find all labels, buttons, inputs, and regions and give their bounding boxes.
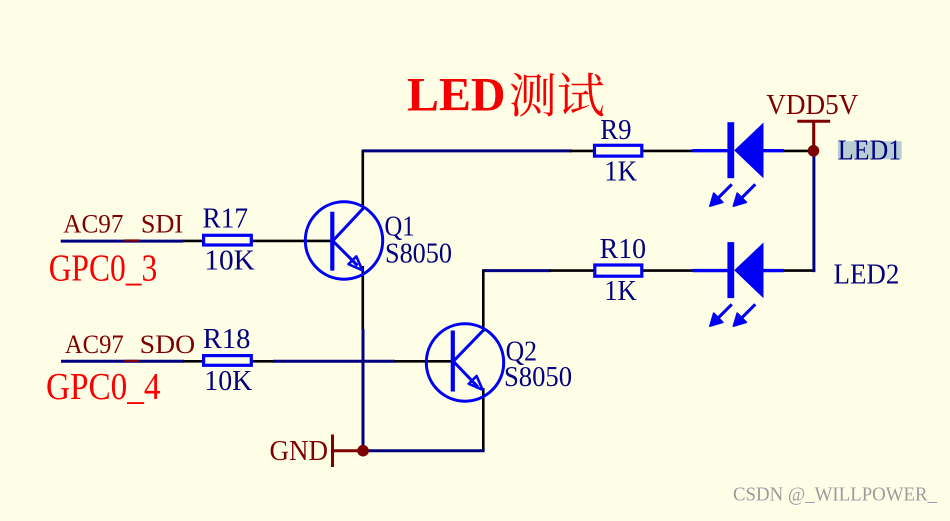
wire R17 to Q1 base black bbox=[252, 240, 331, 243]
label LED1 (highlighted) bbox=[838, 141, 902, 159]
title LED测试 bbox=[407, 69, 603, 122]
wire row1 black left of R9 bbox=[570, 150, 594, 153]
wire Q1 emitter to GND navy vertical bbox=[362, 329, 365, 451]
wire Q1 base row black bbox=[182, 240, 203, 243]
svg-text:1K: 1K bbox=[604, 276, 637, 307]
svg-text:AC97: AC97 bbox=[65, 330, 124, 359]
svg-text:SDO: SDO bbox=[140, 330, 196, 359]
wire row4 black to Q2 base bbox=[394, 360, 452, 363]
transistor Q1 bbox=[305, 202, 382, 279]
svg-text:R17: R17 bbox=[203, 203, 249, 234]
ground GND symbol bbox=[333, 435, 364, 468]
svg-text:SDI: SDI bbox=[141, 210, 183, 239]
svg-text:LED1: LED1 bbox=[838, 135, 902, 166]
svg-text:CSDN @_WILLPOWER_: CSDN @_WILLPOWER_ bbox=[733, 483, 938, 505]
svg-text:R10: R10 bbox=[600, 234, 647, 265]
svg-text:S8050: S8050 bbox=[504, 362, 572, 393]
junction GND node bbox=[357, 445, 369, 457]
wire row4 black to R18 bbox=[183, 360, 203, 363]
transistor Q2 bbox=[426, 324, 503, 401]
wire row4 navy middle bbox=[273, 360, 395, 363]
wire row1 black R9 to LED1 bbox=[643, 150, 694, 153]
svg-text:10K: 10K bbox=[204, 366, 252, 397]
wire LED2 corner up to VDD junction navy bbox=[812, 151, 815, 272]
LED LED1 bbox=[692, 122, 784, 206]
wire GND row navy bbox=[363, 449, 485, 452]
svg-text:GPC0_4: GPC0_4 bbox=[46, 366, 161, 408]
LED LED2 bbox=[693, 242, 784, 326]
wire row1 black LED1 to junction bbox=[783, 150, 814, 153]
wire row4 black after R18 bbox=[252, 360, 274, 363]
svg-text:10K: 10K bbox=[204, 246, 255, 277]
svg-text:R18: R18 bbox=[203, 324, 251, 355]
wire row3 black R10 to LED2 bbox=[643, 269, 694, 272]
wire net AC97_SDI navy underline bbox=[61, 240, 183, 243]
wire Q2 emitter vertical black bbox=[482, 388, 485, 451]
svg-text:S8050: S8050 bbox=[385, 239, 452, 270]
svg-text:AC97: AC97 bbox=[63, 210, 123, 239]
wire net AC97_SDO navy underline bbox=[61, 360, 184, 363]
svg-text:LED: LED bbox=[407, 69, 506, 122]
watermark CSDN bbox=[733, 483, 938, 506]
svg-text:VDD5V: VDD5V bbox=[766, 90, 858, 121]
svg-text:R9: R9 bbox=[600, 115, 631, 146]
resistor R9 bbox=[595, 145, 642, 156]
junction VDD-LED1 bbox=[808, 145, 820, 157]
resistor R17 bbox=[204, 235, 252, 245]
power VDD5V symbol bbox=[797, 121, 830, 151]
net label AC97_SDO bbox=[65, 330, 195, 362]
wire Q1 emitter vertical black bbox=[361, 266, 364, 330]
svg-text:LED2: LED2 bbox=[834, 259, 900, 290]
svg-text:1K: 1K bbox=[604, 156, 637, 187]
svg-text:GND: GND bbox=[270, 436, 329, 467]
wire Q1 collector vertical bbox=[361, 150, 364, 210]
wire row3 navy from Q2 collector corner bbox=[483, 269, 551, 272]
wire row3 black to R10 bbox=[549, 269, 594, 272]
resistor R18 bbox=[204, 356, 252, 366]
svg-text:GPC0_3: GPC0_3 bbox=[49, 247, 158, 289]
resistor R10 bbox=[595, 265, 642, 276]
net label AC97_SDI bbox=[63, 210, 183, 242]
wire Q2 collector vertical black bbox=[482, 269, 485, 332]
wire row3 black LED2 to corner bbox=[783, 269, 815, 272]
wire net VDD row1 navy segment bbox=[363, 149, 572, 152]
